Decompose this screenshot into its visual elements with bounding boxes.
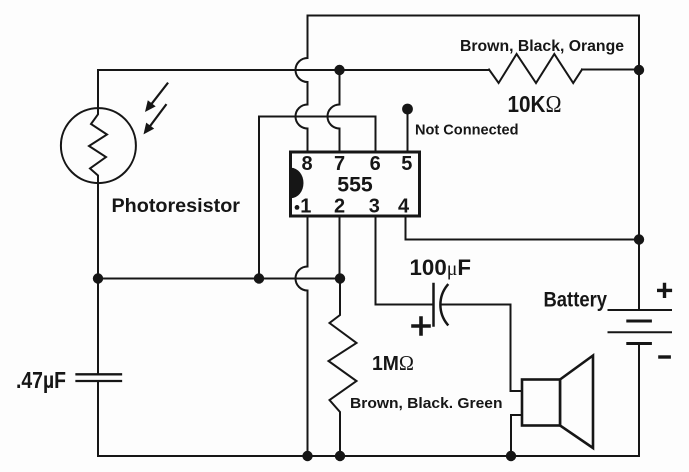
battery B1 plate long top bbox=[609, 309, 672, 311]
svg-text:.47µF: .47µF bbox=[16, 367, 66, 393]
wire right rail upper bbox=[638, 16, 640, 310]
wire pin5 stub bbox=[407, 109, 409, 152]
svg-text:555: 555 bbox=[337, 174, 373, 197]
svg-text:2: 2 bbox=[334, 196, 345, 218]
speaker body bbox=[522, 380, 560, 426]
node junction dot pin4 right bbox=[634, 234, 644, 244]
op-amp U1 555 IC body bbox=[291, 152, 420, 216]
pin 1 dot bbox=[295, 205, 300, 210]
wire speaker bottom terminal bbox=[511, 415, 522, 456]
capacitor C1 100uF left plate bbox=[432, 284, 435, 326]
resistor R1 10K zigzag bbox=[489, 54, 582, 83]
svg-text:Brown, Black. Green: Brown, Black. Green bbox=[350, 396, 503, 412]
speaker cone bbox=[560, 356, 593, 449]
wire bottom rail bbox=[98, 455, 639, 457]
wire left rail mid bbox=[97, 279, 99, 375]
battery plate long lower bbox=[609, 331, 672, 333]
node junction dot 10K right bbox=[634, 65, 644, 75]
555 notch bbox=[291, 168, 303, 198]
wire photoresistor top lead bbox=[97, 70, 99, 108]
wire vertical x259 bbox=[258, 117, 260, 279]
svg-text:100μF: 100μF bbox=[410, 255, 472, 280]
wire pin7 vertical with hop bbox=[328, 70, 340, 152]
wire right rail lower bbox=[638, 344, 640, 457]
resistor R2 1M zigzag bbox=[329, 279, 357, 457]
wire left rail bottom bbox=[97, 381, 99, 456]
svg-text:6: 6 bbox=[370, 153, 381, 175]
svg-text:5: 5 bbox=[401, 153, 412, 175]
node junction dot pin1 bottom bbox=[302, 451, 312, 461]
battery plate short bottom bbox=[628, 342, 651, 345]
node junction dot pin7 top bbox=[334, 65, 344, 75]
wire net y116 horizontal bbox=[259, 117, 376, 153]
svg-text:8: 8 bbox=[301, 153, 312, 175]
svg-text:1: 1 bbox=[300, 196, 311, 218]
svg-text:7: 7 bbox=[334, 153, 345, 175]
photoresistor arrow 2 bbox=[150, 105, 165, 126]
node junction dot left y278 bbox=[93, 273, 103, 283]
wire photoresistor bottom lead bbox=[97, 183, 99, 279]
node junction dot 1M bottom bbox=[335, 451, 345, 461]
wire pin8 vertical with hops bbox=[296, 16, 308, 153]
wire pin1 vertical with hop bbox=[296, 216, 308, 456]
svg-text:1MΩ: 1MΩ bbox=[372, 351, 414, 375]
wire pin2 stub bbox=[339, 216, 341, 279]
label battery plus bbox=[659, 285, 671, 297]
photoresistor arrow 1 bbox=[152, 84, 167, 104]
capacitor C1 100uF right plate arc bbox=[440, 285, 447, 325]
svg-text:10KΩ: 10KΩ bbox=[508, 91, 562, 118]
battery plate short upper bbox=[628, 320, 651, 323]
wire pin3 to cap bbox=[376, 216, 434, 305]
label battery minus bbox=[660, 355, 669, 358]
capacitor C2 .47uF top plate bbox=[77, 373, 122, 375]
label plus C1 bbox=[413, 318, 429, 334]
photoresistor zigzag bbox=[89, 108, 107, 183]
wire cap to speaker bbox=[441, 305, 522, 392]
wire pin4 net bbox=[406, 216, 640, 240]
svg-text:Photoresistor: Photoresistor bbox=[112, 195, 241, 217]
svg-text:4: 4 bbox=[398, 196, 410, 218]
svg-text:3: 3 bbox=[369, 196, 380, 218]
node junction dot speaker bottom bbox=[506, 451, 516, 461]
svg-text:Not Connected: Not Connected bbox=[415, 123, 519, 139]
capacitor C2 .47uF bottom plate bbox=[77, 380, 122, 382]
node junction dot x340 y278 bbox=[335, 273, 345, 283]
node junction dot x259 y278 bbox=[254, 273, 264, 283]
svg-text:Brown, Black, Orange: Brown, Black, Orange bbox=[460, 38, 624, 55]
wire horizontal net y70 right bbox=[582, 69, 639, 71]
wire net y278 horizontal bbox=[98, 278, 340, 280]
wire top rail bbox=[308, 15, 640, 17]
not connected dot bbox=[402, 104, 413, 115]
photoresistor circle bbox=[61, 108, 136, 183]
svg-text:Battery: Battery bbox=[544, 289, 608, 312]
wire horizontal net y70 left bbox=[98, 69, 489, 71]
